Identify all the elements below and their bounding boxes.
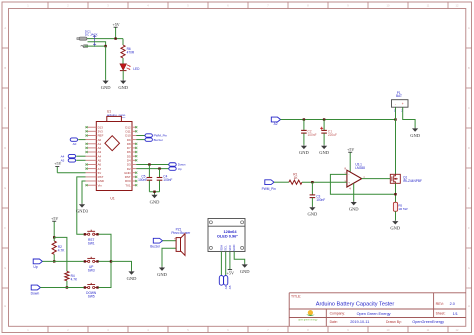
svg-text:9: 9 bbox=[347, 4, 349, 8]
svg-text:SW1: SW1 bbox=[88, 241, 95, 245]
wire A2 to battery bbox=[281, 119, 396, 121]
svg-text:+5V: +5V bbox=[113, 22, 120, 27]
svg-text:1: 1 bbox=[27, 4, 29, 8]
svg-text:GND: GND bbox=[319, 150, 329, 155]
ground (oled) bbox=[240, 264, 250, 274]
wire buzzer bottom to GND bbox=[162, 248, 176, 266]
svg-text:2: 2 bbox=[67, 4, 69, 8]
title block bbox=[289, 293, 466, 327]
wire RST pin to switch column bbox=[77, 177, 86, 234]
LED D1 bbox=[120, 64, 140, 71]
svg-text:GND: GND bbox=[118, 85, 128, 90]
svg-text:2: 2 bbox=[344, 172, 346, 176]
wire caps common to GND bbox=[149, 192, 159, 194]
net flag A5 (oled) bbox=[224, 276, 233, 290]
wire OLED VCC down bbox=[229, 252, 231, 270]
svg-text:REV:: REV: bbox=[436, 302, 444, 306]
junction C3 top bbox=[311, 181, 313, 183]
svg-text:Buzzer: Buzzer bbox=[150, 244, 161, 248]
svg-text:F: F bbox=[468, 226, 470, 230]
svg-text:E: E bbox=[468, 186, 470, 190]
svg-text:5: 5 bbox=[187, 4, 189, 8]
resistor R4 4.7K bbox=[65, 271, 78, 287]
svg-text:GND: GND bbox=[299, 150, 309, 155]
buzzer PZ1 Piezo Buzzer bbox=[171, 227, 191, 255]
wire OLED SCL down bbox=[225, 252, 227, 276]
svg-text:SW5: SW5 bbox=[88, 295, 95, 299]
net flag Down bbox=[169, 163, 186, 167]
wire op-amp output to gate bbox=[362, 178, 391, 180]
wire op-amp pin4 to GND bbox=[353, 183, 355, 201]
wire R5 to GND bbox=[395, 211, 397, 220]
svg-text:8: 8 bbox=[307, 4, 309, 8]
svg-text:4.7K: 4.7K bbox=[71, 278, 78, 282]
svg-text:A4: A4 bbox=[224, 285, 228, 289]
svg-text:PWM_Pin: PWM_Pin bbox=[262, 187, 276, 191]
svg-text:4.7K: 4.7K bbox=[58, 248, 65, 252]
ground (caps C4 C5) bbox=[150, 194, 160, 204]
wire +5V to 5V pin bbox=[57, 172, 85, 174]
wire A0 flag to pin bbox=[78, 139, 85, 141]
resistor R1 1K bbox=[289, 172, 302, 184]
wire jack node to GND bbox=[105, 46, 107, 80]
wire D2 row (Up net) bbox=[136, 168, 169, 170]
svg-text:IRLZ44NPBF: IRLZ44NPBF bbox=[403, 179, 422, 183]
net flag Up (switch) bbox=[33, 259, 42, 269]
svg-text:GND: GND bbox=[308, 212, 318, 217]
resistor R2 4.7K bbox=[52, 237, 65, 261]
wire D3 row (Down net) bbox=[136, 164, 169, 166]
resistor R6 470R bbox=[121, 45, 135, 58]
svg-text:12: 12 bbox=[456, 4, 459, 8]
net flag Down (switch) bbox=[31, 285, 41, 295]
svg-text:Piezo Buzzer: Piezo Buzzer bbox=[171, 231, 191, 235]
svg-text:8: 8 bbox=[345, 166, 347, 170]
junction C4 top bbox=[158, 167, 160, 169]
svg-text:9: 9 bbox=[347, 328, 349, 332]
svg-text:H: H bbox=[4, 304, 6, 308]
svg-text:SW3: SW3 bbox=[88, 268, 95, 272]
connector P1 BAT battery bbox=[392, 91, 409, 113]
svg-text:3: 3 bbox=[344, 179, 346, 183]
svg-text:10: 10 bbox=[387, 328, 390, 332]
svg-text:+5V: +5V bbox=[54, 161, 61, 166]
svg-text:11: 11 bbox=[427, 4, 430, 8]
ground (C2) bbox=[299, 145, 309, 155]
svg-text:4: 4 bbox=[147, 328, 149, 332]
svg-text:GND: GND bbox=[127, 276, 137, 281]
svg-text:H: H bbox=[468, 304, 470, 308]
op U1 arduino_nano designator bbox=[107, 110, 126, 117]
ground GND3 (arduino) bbox=[76, 203, 89, 213]
svg-text:GND: GND bbox=[157, 272, 167, 277]
svg-text:G: G bbox=[468, 266, 470, 270]
wire bus to GND bbox=[111, 261, 132, 270]
svg-text:D: D bbox=[4, 146, 6, 150]
svg-text:LED: LED bbox=[133, 67, 140, 71]
svg-text:Buzzer: Buzzer bbox=[154, 138, 163, 142]
svg-text:Arduino Battery Capacity Teste: Arduino Battery Capacity Tester bbox=[316, 302, 395, 308]
svg-text:+5V: +5V bbox=[227, 270, 234, 275]
svg-text:2.0: 2.0 bbox=[450, 302, 455, 306]
transistor Q1 IRLZ44NPBF bbox=[390, 174, 422, 183]
resistor R5 1R 5W bbox=[393, 202, 407, 211]
svg-text:10: 10 bbox=[387, 4, 390, 8]
switch SW5 DOWN bbox=[84, 283, 99, 299]
svg-text:12: 12 bbox=[456, 328, 459, 332]
svg-text:100nF: 100nF bbox=[138, 178, 147, 182]
power flag +5V (oled) bbox=[227, 270, 234, 276]
ground (battery) bbox=[410, 128, 420, 138]
svg-text:3: 3 bbox=[107, 328, 109, 332]
junction R4 bottom / Down row bbox=[66, 286, 68, 288]
wire OLED GND down bbox=[234, 252, 245, 264]
svg-text:1/1: 1/1 bbox=[453, 312, 458, 316]
svg-text:B: B bbox=[4, 66, 6, 70]
net flag A4 bbox=[61, 154, 76, 158]
ground (C3) bbox=[308, 206, 318, 216]
svg-text:+: + bbox=[402, 102, 404, 106]
svg-text:C: C bbox=[468, 106, 470, 110]
svg-text:GND: GND bbox=[349, 207, 359, 212]
svg-text:100nF: 100nF bbox=[308, 133, 317, 137]
wire battery to mosfet drain bbox=[395, 120, 397, 175]
svg-text:1: 1 bbox=[27, 328, 29, 332]
svg-text:Vin: Vin bbox=[98, 183, 103, 187]
junction at +5V / jack node bbox=[114, 37, 116, 39]
ground (op-amp) bbox=[349, 201, 359, 211]
wire PWM flag to R1 bbox=[274, 181, 289, 183]
ground (dc jack) bbox=[101, 80, 111, 90]
svg-text:3: 3 bbox=[107, 4, 109, 8]
svg-text:A2: A2 bbox=[274, 122, 278, 126]
junction C2 bbox=[303, 118, 305, 120]
wire GND pin down bbox=[82, 181, 86, 203]
svg-text:470R: 470R bbox=[127, 50, 135, 54]
svg-text:4: 4 bbox=[349, 187, 351, 191]
wire R1 to op-amp pin3 bbox=[302, 181, 347, 183]
svg-text:Sheet:: Sheet: bbox=[436, 312, 446, 316]
power flag +5V (op-amp) bbox=[347, 147, 354, 172]
svg-text:D: D bbox=[468, 146, 470, 150]
junction battery drain bbox=[394, 118, 396, 120]
svg-text:A5: A5 bbox=[228, 285, 232, 289]
net flag A2 (battery sense) bbox=[271, 117, 280, 126]
svg-text:C: C bbox=[4, 106, 6, 110]
svg-text:11: 11 bbox=[427, 328, 430, 332]
company logo bbox=[298, 310, 318, 322]
svg-text:6: 6 bbox=[227, 4, 229, 8]
wire LED to GND bbox=[122, 71, 124, 80]
power flag +5V (switch pullups) bbox=[51, 216, 58, 238]
svg-text:F: F bbox=[4, 226, 6, 230]
net flag Up bbox=[169, 167, 182, 171]
svg-text:1K: 1K bbox=[294, 176, 299, 180]
svg-text:Up: Up bbox=[33, 265, 37, 269]
wire Down row bbox=[40, 287, 84, 289]
junction caps gnd bbox=[153, 191, 155, 193]
net flag A4 (oled) bbox=[219, 276, 227, 290]
junction at jack ground node bbox=[104, 45, 106, 47]
wire +5V to R4 branch bbox=[54, 237, 67, 271]
svg-text:7: 7 bbox=[267, 328, 269, 332]
svg-text:open green energy: open green energy bbox=[298, 319, 318, 322]
svg-text:DC JACK: DC JACK bbox=[85, 33, 98, 37]
svg-text:-: - bbox=[348, 173, 349, 177]
switch SW3 UP bbox=[84, 257, 99, 273]
svg-text:A0: A0 bbox=[73, 142, 77, 146]
svg-text:TX1: TX1 bbox=[125, 183, 131, 187]
svg-text:GND: GND bbox=[240, 269, 250, 274]
wire mosfet source down bbox=[395, 183, 397, 202]
svg-text:Company:: Company: bbox=[330, 312, 346, 316]
junction R2 bottom / Up row bbox=[53, 260, 55, 262]
svg-text:100nF: 100nF bbox=[163, 178, 172, 182]
net flag Buzzer (piezo) bbox=[150, 238, 162, 248]
svg-text:TITLE:: TITLE: bbox=[291, 294, 301, 298]
svg-text:+5V: +5V bbox=[51, 216, 58, 221]
svg-text:A: A bbox=[4, 26, 6, 30]
op-amp U3.1 LM358 bbox=[344, 162, 365, 190]
svg-text:U1: U1 bbox=[110, 196, 114, 200]
wire R6 to LED bbox=[122, 58, 124, 64]
svg-text:LM358: LM358 bbox=[355, 166, 365, 170]
svg-text:GND: GND bbox=[232, 245, 236, 251]
svg-text:GND: GND bbox=[390, 226, 400, 231]
svg-text:1R 5W: 1R 5W bbox=[398, 207, 407, 211]
ground (buzzer) bbox=[157, 267, 167, 277]
ground (R5 shunt) bbox=[390, 220, 400, 230]
svg-text:+: + bbox=[348, 181, 350, 185]
wire buzzer top bbox=[163, 240, 177, 242]
wire jack pin2/pin3 loop bbox=[85, 42, 106, 46]
ground (switches) bbox=[127, 271, 137, 281]
svg-text:Open Green Energy: Open Green Energy bbox=[357, 312, 391, 316]
svg-text:OLED 0.96": OLED 0.96" bbox=[217, 233, 238, 238]
wire Up row bbox=[42, 260, 84, 262]
svg-text:-: - bbox=[395, 102, 396, 106]
wire op-amp pin2 feedback bbox=[330, 174, 395, 194]
svg-text:220uF: 220uF bbox=[328, 133, 337, 137]
net flag A5 bbox=[61, 159, 76, 163]
svg-text:Down: Down bbox=[31, 291, 40, 295]
svg-text:+5V: +5V bbox=[347, 147, 354, 152]
svg-text:BAT: BAT bbox=[396, 94, 402, 98]
svg-text:GND: GND bbox=[101, 85, 111, 90]
svg-text:4: 4 bbox=[147, 4, 149, 8]
wire dc jack to +5V node bbox=[87, 38, 123, 40]
wire switch right bus bbox=[98, 234, 111, 287]
wire A5 flag to pin bbox=[76, 159, 85, 161]
wire +5V node down to R6 bbox=[122, 39, 124, 45]
svg-text:8: 8 bbox=[307, 328, 309, 332]
ground (LED) bbox=[118, 80, 128, 90]
junction source/feedback bbox=[394, 193, 396, 195]
svg-text:5: 5 bbox=[187, 328, 189, 332]
svg-text:A: A bbox=[468, 26, 470, 30]
svg-text:7: 7 bbox=[267, 4, 269, 8]
svg-text:2019-10-11: 2019-10-11 bbox=[350, 320, 369, 324]
arduino diamond mark bbox=[105, 136, 120, 151]
svg-text:GND: GND bbox=[410, 133, 420, 138]
wire battery pin2 to GND bbox=[403, 107, 415, 127]
net flag PWM_Pin (filter) bbox=[262, 180, 276, 191]
power flag +5V (top) bbox=[113, 22, 120, 39]
svg-text:2: 2 bbox=[67, 328, 69, 332]
ground (C1) bbox=[319, 145, 329, 155]
connector DC1 DC JACK bbox=[77, 29, 98, 47]
svg-text:Drawn By:: Drawn By: bbox=[386, 320, 402, 324]
svg-text:Date:: Date: bbox=[330, 320, 338, 324]
junction bus Up row bbox=[110, 260, 112, 262]
display OLED 128x64 bbox=[208, 219, 245, 252]
svg-text:100nF: 100nF bbox=[316, 198, 325, 202]
svg-text:+: + bbox=[174, 237, 176, 241]
power flag +5V (arduino 5V pin) bbox=[54, 161, 61, 173]
IC U1 arduino nano body bbox=[96, 122, 132, 191]
junction pullup node bbox=[53, 236, 55, 238]
capacitor C3 100nF bbox=[310, 182, 326, 206]
junction C1 bbox=[323, 118, 325, 120]
arduino usb connector notch bbox=[107, 116, 122, 121]
svg-text:B: B bbox=[468, 66, 470, 70]
wire A4 flag to pin bbox=[76, 155, 85, 157]
switch SW1 RST bbox=[84, 230, 99, 246]
svg-text:G: G bbox=[4, 266, 6, 270]
capacitor C5 100nF bbox=[138, 165, 152, 192]
svg-text:E: E bbox=[4, 186, 6, 190]
svg-text:OpenGreenEnergy: OpenGreenEnergy bbox=[412, 320, 444, 324]
capacitor C4 100nF bbox=[157, 169, 173, 192]
net flag A0 bbox=[70, 138, 77, 146]
net flag PWM_Pin (arduino) bbox=[136, 134, 167, 138]
svg-text:GND: GND bbox=[150, 199, 160, 204]
wire battery pin1 down bbox=[395, 107, 397, 119]
capacitor C1 220uF polarized bbox=[320, 120, 337, 145]
wire OLED SDA down bbox=[220, 252, 222, 276]
svg-text:Up: Up bbox=[178, 167, 182, 171]
junction C5 top bbox=[148, 163, 150, 165]
capacitor C2 100nF bbox=[301, 120, 316, 145]
svg-text:6: 6 bbox=[227, 328, 229, 332]
arduino pins and labels bbox=[86, 125, 138, 187]
net flag Buzzer (arduino) bbox=[136, 138, 163, 142]
title block texts bbox=[291, 294, 458, 324]
svg-text:GND3: GND3 bbox=[76, 209, 89, 214]
